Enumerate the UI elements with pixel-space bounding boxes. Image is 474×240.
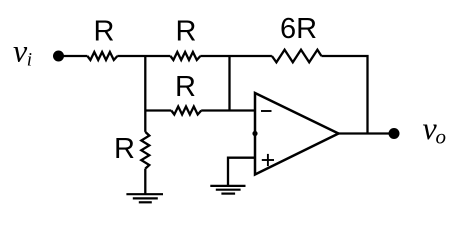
node A vertical rail wire <box>144 56 146 132</box>
svg-text:R: R <box>176 16 197 48</box>
svg-text:o: o <box>436 125 447 149</box>
wire op-amp non-inverting input to ground <box>228 158 255 186</box>
svg-text:i: i <box>27 50 32 71</box>
wire node A to R3 (second row left) <box>145 109 171 111</box>
wire R2 to node B and on to 6R <box>200 55 272 57</box>
resistor R5 (6R feedback) <box>272 50 322 63</box>
svg-text:6R: 6R <box>280 13 317 45</box>
junction dot on op-amp left edge <box>252 131 257 136</box>
input terminal dot (vi node) <box>53 51 64 62</box>
wire 6R to output node (top right corner) <box>321 56 367 134</box>
svg-text:v: v <box>13 33 28 69</box>
label vi <box>13 33 32 71</box>
ground symbol (non-inverting input) <box>210 186 245 194</box>
svg-text:R: R <box>94 16 115 48</box>
wire R4 to ground <box>144 169 146 195</box>
wire op-amp output to vo terminal <box>339 132 395 134</box>
svg-text:R: R <box>114 133 135 165</box>
op-amp U1 <box>255 93 339 175</box>
svg-text:R: R <box>175 71 196 103</box>
wire R1 to node A and on to R2 <box>117 55 170 57</box>
wire R3 to op-amp inverting input <box>201 109 255 111</box>
wire vi terminal to R1 <box>59 55 88 57</box>
resistor R4 (vertical to ground) <box>141 132 149 169</box>
label vo <box>423 110 447 149</box>
resistor R1 <box>87 52 117 60</box>
output terminal dot (vo node) <box>389 128 400 139</box>
node B vertical rail wire <box>228 56 230 111</box>
resistor R2 <box>170 52 200 60</box>
resistor R3 <box>171 107 201 115</box>
ground symbol (below R4) <box>126 194 163 202</box>
